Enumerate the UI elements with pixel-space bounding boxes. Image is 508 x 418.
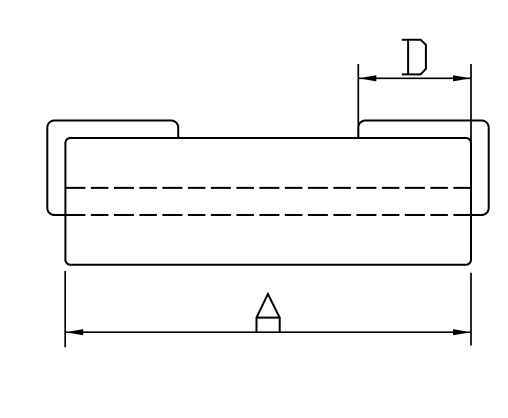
D arrowhead right (453, 75, 471, 81)
A arrowhead right (453, 329, 471, 335)
D extension line left (357, 64, 359, 138)
upper hidden (dashed) line (65, 187, 471, 189)
D arrowhead left (358, 75, 376, 81)
label D (402, 40, 426, 75)
label A (257, 294, 280, 332)
lower hidden (dashed) line (65, 214, 471, 216)
A extension line right (470, 273, 472, 346)
D dimension line (358, 77, 471, 79)
D extension line right (470, 64, 472, 146)
main body outline (65, 138, 471, 265)
right collar (sleeve end, visible outline) (358, 121, 488, 216)
A dimension line (65, 331, 471, 333)
A extension line left (64, 271, 66, 347)
left collar (sleeve end, visible outline) (47, 121, 178, 216)
A arrowhead left (65, 329, 83, 335)
